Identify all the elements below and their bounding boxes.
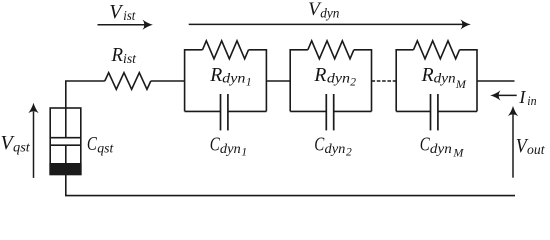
svg-text:1: 1 [241, 147, 247, 159]
resistor R_dynM [414, 41, 460, 59]
capacitor C_dyn2 plates [325, 94, 327, 130]
svg-text:M: M [452, 145, 464, 159]
RC block 3 bottom left wire [396, 110, 430, 112]
label C_dyn2 [314, 134, 352, 159]
svg-text:R: R [111, 44, 123, 66]
arrowhead V_out [508, 106, 518, 116]
svg-text:dyn: dyn [220, 142, 241, 157]
svg-text:out: out [527, 143, 546, 158]
svg-text:V: V [109, 1, 124, 23]
label I_in [518, 87, 536, 108]
label R_dyn2 [313, 64, 356, 89]
arrow line V_qst [33, 112, 35, 178]
capacitor C_qst inner wire top [65, 108, 67, 137]
label R_ist [111, 44, 138, 67]
svg-text:qst: qst [97, 141, 114, 156]
svg-text:dyn: dyn [430, 142, 452, 157]
arrow line I_in [499, 94, 517, 96]
arrow line V_out [512, 115, 514, 178]
resistor R_ist [105, 73, 151, 90]
RC block 1 bottom left wire [185, 110, 221, 112]
RC block 3 box top/right [460, 50, 478, 112]
RC block 2 bottom left wire [290, 110, 326, 112]
resistor R_dyn2 [308, 41, 354, 59]
RC block 2 box top/right [354, 50, 372, 112]
arrowhead V_qst [28, 103, 38, 113]
arrowhead V_dyn [461, 19, 471, 29]
svg-text:R: R [313, 64, 326, 86]
wire bottom return [66, 174, 515, 195]
svg-text:dyn: dyn [320, 5, 339, 20]
wire [151, 80, 185, 82]
dashed wire [372, 80, 397, 82]
svg-text:M: M [455, 77, 467, 91]
RC block 1 bottom right wire [228, 110, 267, 112]
arrowhead I_in [490, 90, 500, 100]
svg-text:C: C [314, 134, 324, 156]
svg-text:C: C [210, 134, 220, 156]
svg-text:dyn: dyn [222, 72, 245, 87]
resistor R_dyn1 [203, 41, 249, 59]
capacitor C_qst box [50, 108, 81, 174]
label R_dynM [421, 64, 467, 91]
svg-text:in: in [527, 93, 536, 108]
capacitor C_dynM plates [430, 94, 432, 130]
label V_dyn [308, 0, 340, 20]
label V_out [516, 135, 546, 158]
svg-text:dyn: dyn [434, 72, 456, 87]
arrow line V_dyn [189, 23, 463, 25]
capacitor C_dyn1 plates [220, 94, 222, 130]
capacitor C_qst plate lower [50, 144, 81, 146]
label V_ist [109, 1, 136, 24]
RC block 1 box top/right [249, 50, 267, 112]
RC block 3 bottom right wire [438, 110, 477, 112]
svg-text:dyn: dyn [325, 142, 346, 157]
RC block 1 box left/top [185, 50, 203, 112]
wire [266, 80, 290, 82]
svg-text:2: 2 [350, 76, 356, 88]
svg-text:1: 1 [246, 76, 252, 88]
RC block 2 box left/top [290, 50, 308, 112]
svg-text:2: 2 [346, 147, 352, 159]
svg-text:ist: ist [123, 52, 137, 67]
capacitor C_qst inner wire bottom [65, 146, 67, 164]
label R_dyn1 [209, 64, 251, 89]
label C_dyn1 [210, 134, 247, 159]
svg-text:R: R [209, 64, 222, 86]
svg-text:C: C [420, 134, 430, 156]
svg-text:R: R [421, 64, 434, 86]
label V_qst [1, 132, 31, 156]
svg-text:dyn: dyn [327, 72, 350, 87]
label C_dynM [420, 134, 465, 160]
arrowhead V_ist [143, 20, 153, 30]
wire [477, 80, 515, 82]
RC block 2 bottom right wire [334, 110, 372, 112]
svg-text:qst: qst [13, 140, 31, 155]
label C_qst [87, 133, 114, 156]
svg-text:C: C [87, 133, 97, 155]
capacitor C_qst electrolyte fill [49, 163, 81, 175]
svg-text:ist: ist [123, 9, 136, 24]
svg-text:I: I [518, 87, 526, 107]
RC block 3 box left/top [396, 50, 413, 112]
capacitor C_qst plate upper [50, 137, 81, 139]
wire [66, 81, 105, 108]
arrow line V_ist [98, 24, 145, 26]
